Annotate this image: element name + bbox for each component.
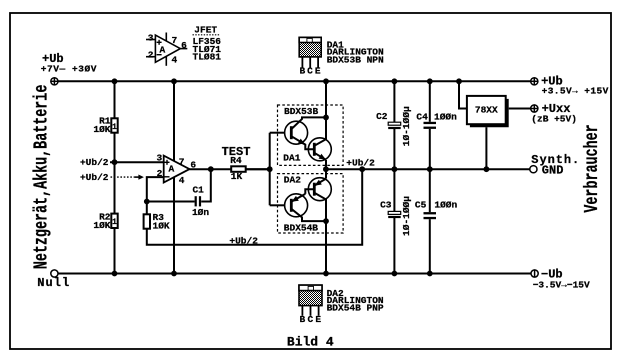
- junction mid rail / C2 C3: [392, 166, 398, 172]
- wire top rail +Ub: [58, 80, 531, 82]
- op-amp U1 main: [164, 156, 190, 183]
- junction node TEST / bases: [267, 166, 273, 172]
- junction opamp output / C1: [208, 166, 214, 172]
- svg-text:Null: Null: [37, 276, 70, 290]
- svg-text:E: E: [315, 314, 321, 325]
- svg-text:1ØØn: 1ØØn: [434, 112, 457, 123]
- capacitor C5: [424, 212, 437, 219]
- junction mid rail / C4 C5: [427, 166, 433, 172]
- wire opamp pin4: [173, 177, 175, 273]
- terminal +Uxx: [531, 105, 538, 112]
- transistor Q2 DA1 output: [308, 117, 331, 160]
- wire R2 to bottom rail: [114, 228, 116, 274]
- wire DA1 collector to top rail: [325, 81, 327, 117]
- junction mid rail / 78XX gnd: [484, 166, 490, 172]
- svg-text:Verbraucher: Verbraucher: [581, 124, 603, 212]
- transistor Q3 DA2 input: [285, 189, 326, 221]
- junction mid rail / R3 return: [359, 166, 365, 172]
- resistor R2: [111, 214, 117, 228]
- resistor R1: [111, 118, 117, 132]
- svg-text:BDX54B: BDX54B: [284, 222, 319, 233]
- terminal Synth GND: [530, 166, 537, 173]
- transistor Q1 DA1 input: [285, 117, 326, 149]
- regulator 78XX: [467, 96, 509, 127]
- svg-text:BDX54B PNP: BDX54B PNP: [327, 303, 384, 314]
- junction DA2 collectors: [323, 218, 329, 224]
- svg-text:1: 1: [112, 123, 117, 132]
- wire pin3 line: [110, 161, 164, 163]
- svg-text:6: 6: [181, 40, 187, 51]
- svg-text:7: 7: [172, 35, 178, 46]
- svg-text:A: A: [160, 44, 166, 55]
- svg-text:C: C: [307, 66, 313, 77]
- svg-text:C5: C5: [415, 200, 427, 211]
- svg-text:C2: C2: [376, 111, 388, 122]
- wire 78XX gnd: [485, 127, 487, 169]
- svg-text:+3.5V→ +15V: +3.5V→ +15V: [542, 86, 609, 97]
- junction bottom rail / R2: [112, 271, 118, 277]
- wire C2 column: [393, 81, 395, 122]
- wire R1 column top: [114, 81, 116, 118]
- wire 78XX output: [509, 108, 531, 110]
- resistor R4: [231, 166, 246, 172]
- terminal +Ub right: [531, 78, 538, 85]
- svg-text:BDX53B: BDX53B: [284, 106, 319, 117]
- junction top rail / C4: [427, 78, 433, 84]
- resistor R3: [144, 214, 150, 228]
- svg-text:B: B: [299, 66, 305, 77]
- capacitor C4: [424, 122, 437, 129]
- wire opamp pin7: [173, 81, 175, 161]
- svg-text:DA2: DA2: [284, 174, 301, 185]
- svg-text:1ØØn: 1ØØn: [434, 200, 457, 211]
- wire R4 right to bases: [246, 168, 270, 170]
- wire DA2 base lead: [270, 204, 285, 206]
- junction DA1 collectors: [323, 115, 329, 121]
- wire DA2 emitter to mid rail: [325, 169, 327, 178]
- svg-text:+7V— +3ØV: +7V— +3ØV: [41, 64, 97, 75]
- wire C3 column: [393, 169, 395, 211]
- wire mid rail opamp output to bases: [190, 168, 270, 170]
- wire C1 node row: [147, 201, 195, 203]
- wire DA1 emitter to mid rail: [325, 160, 327, 169]
- wire C5 column: [429, 169, 431, 212]
- capacitor C2 electrolytic: [388, 122, 401, 129]
- junction top rail / 78XX feed: [456, 78, 462, 84]
- svg-text:1Ø-1ØØµ: 1Ø-1ØØµ: [401, 106, 412, 146]
- junction bottom rail / opamp pin4: [171, 271, 177, 277]
- wire dotted +Ub/2 to pin2: [111, 176, 135, 178]
- svg-text:6: 6: [190, 160, 196, 171]
- junction dot C1 node: [144, 199, 150, 205]
- svg-text:4: 4: [179, 175, 185, 186]
- wire C1 right to output: [201, 169, 211, 201]
- svg-text:B: B: [300, 314, 306, 325]
- svg-text:E: E: [315, 66, 321, 77]
- package DA1: [299, 37, 321, 68]
- junction bottom rail / DA2 collector: [323, 271, 329, 277]
- junction bottom rail / C5: [427, 271, 433, 277]
- wire mid rail +Ub/2 to Synth GND: [326, 168, 530, 170]
- svg-text:1ØK: 1ØK: [93, 220, 110, 231]
- svg-text:(zB +5V): (zB +5V): [531, 113, 577, 124]
- junction bottom rail / C3: [392, 271, 398, 277]
- wire 78XX feed: [459, 81, 467, 108]
- svg-text:2: 2: [157, 168, 163, 179]
- svg-text:4: 4: [172, 55, 178, 66]
- wire base column: [269, 133, 271, 206]
- svg-text:3: 3: [148, 33, 154, 44]
- terminal -Ub: [531, 270, 538, 277]
- wire bottom rail Null/-Ub: [58, 273, 531, 275]
- darlington DA2 dashed box: [278, 174, 344, 233]
- svg-text:Bild 4: Bild 4: [287, 335, 334, 350]
- wire R3 bottom return +Ub/2: [147, 169, 362, 245]
- svg-text:1Ø-1ØØµ: 1Ø-1ØØµ: [401, 196, 412, 236]
- svg-text:A: A: [169, 164, 175, 175]
- svg-text:1: 1: [112, 218, 117, 227]
- package DA2: [299, 285, 322, 316]
- svg-text:C1: C1: [192, 184, 204, 195]
- wire C4 column: [429, 81, 431, 122]
- wire DA2 collectors to bottom rail: [325, 221, 327, 273]
- junction top rail / C2: [392, 78, 398, 84]
- capacitor C1: [195, 196, 201, 206]
- svg-text:7: 7: [179, 157, 185, 168]
- capacitor C3 electrolytic: [388, 211, 401, 218]
- svg-text:C4: C4: [416, 112, 428, 123]
- arrowhead: [138, 175, 144, 180]
- legend opamp: [146, 33, 187, 66]
- wire R3 top: [146, 202, 148, 215]
- wire pin2 elbow: [147, 177, 164, 201]
- svg-text:−3.5V→−15V: −3.5V→−15V: [533, 279, 590, 290]
- svg-text:+Ub/2: +Ub/2: [80, 172, 109, 183]
- svg-text:JFET: JFET: [194, 25, 217, 36]
- junction top rail / DA1 collector: [323, 78, 329, 84]
- svg-text:2: 2: [148, 50, 154, 61]
- svg-text:1ØK: 1ØK: [153, 220, 170, 231]
- svg-text:Netzgerät,Akku,Batterie: Netzgerät,Akku,Batterie: [31, 85, 53, 270]
- svg-text:GND: GND: [542, 163, 564, 177]
- darlington DA1 dashed box: [278, 105, 344, 165]
- svg-text:1ØK: 1ØK: [93, 124, 110, 135]
- svg-text:+Ub/2: +Ub/2: [229, 235, 258, 246]
- svg-text:BDX53B NPN: BDX53B NPN: [327, 54, 384, 65]
- wire R1 to node: [114, 133, 116, 214]
- svg-text:1K: 1K: [231, 171, 243, 182]
- svg-text:+Ub/2: +Ub/2: [346, 157, 375, 168]
- junction top rail / opamp pin7: [171, 78, 177, 84]
- svg-text:1Øn: 1Øn: [192, 207, 209, 218]
- terminal +Ub left: [51, 78, 58, 85]
- svg-text:DA1: DA1: [283, 153, 300, 164]
- svg-text:TLØ81: TLØ81: [193, 52, 222, 63]
- transistor Q4 DA2 output: [308, 178, 331, 221]
- junction top rail / R1: [112, 78, 118, 84]
- svg-text:78XX: 78XX: [475, 104, 498, 115]
- wire DA1 base lead: [270, 132, 285, 134]
- svg-text:+Ub/2: +Ub/2: [80, 157, 109, 168]
- svg-text:TEST: TEST: [222, 145, 251, 159]
- svg-text:C: C: [307, 314, 313, 325]
- svg-text:C3: C3: [380, 200, 392, 211]
- junction node +Ub/2 emitters: [323, 166, 329, 172]
- terminal Null: [51, 270, 58, 277]
- junction dot pin3 node: [112, 159, 118, 165]
- svg-text:3: 3: [156, 152, 162, 163]
